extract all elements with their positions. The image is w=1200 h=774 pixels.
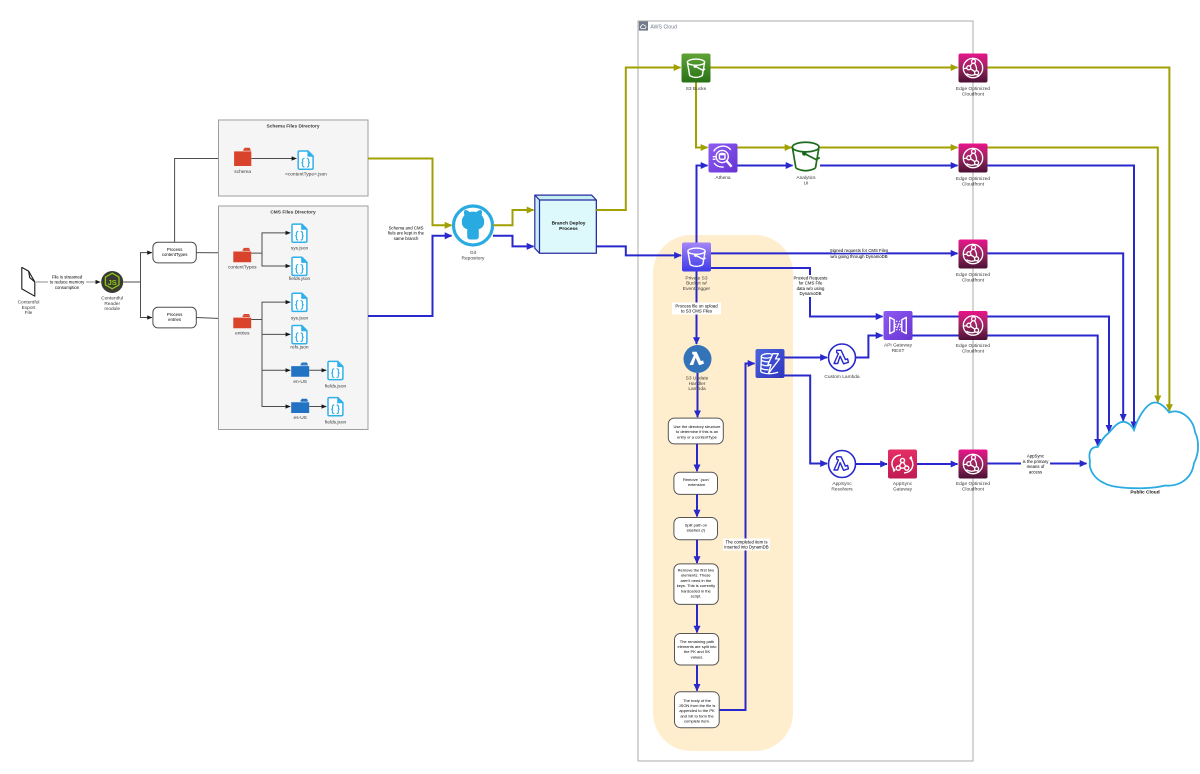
wire en-US to fields.json xyxy=(309,369,326,371)
wire blue Resolvers to AppSync Gateway xyxy=(856,463,887,465)
en-US folder xyxy=(291,363,309,377)
wire olive S3 to CloudFront1 xyxy=(711,67,958,69)
CloudFront 3 icon xyxy=(959,240,988,269)
svg-text:The body of theJSON from the f: The body of theJSON from the file isappe… xyxy=(679,698,716,724)
flow box 1 xyxy=(668,418,723,444)
API Gateway REST icon xyxy=(884,311,913,340)
sys.json 2 xyxy=(292,293,307,311)
svg-text:S3 UpdateHandlerLambda: S3 UpdateHandlerLambda xyxy=(686,376,709,393)
CloudFront 2 icon xyxy=(959,144,988,173)
svg-text:Processentries: Processentries xyxy=(167,312,183,322)
contentTypes folder xyxy=(233,248,251,262)
CloudFront 1 icon xyxy=(959,54,988,83)
edge label process file on upload xyxy=(672,303,721,315)
wire blue CloudFront3 to public cloud xyxy=(988,253,1124,420)
wire blue branch deploy to private S3 xyxy=(596,246,681,255)
wire blue cms dir to git xyxy=(368,236,452,316)
svg-text:The completed item isinserted: The completed item isinserted into Dynam… xyxy=(724,539,768,549)
Contentful Export File document xyxy=(22,267,35,296)
fields.json 2 xyxy=(328,361,343,379)
svg-text:en-US: en-US xyxy=(293,379,307,385)
wire flow 3-4 xyxy=(696,540,698,563)
svg-text:Athena: Athena xyxy=(715,175,731,181)
wire blue completed item to DynamoDB xyxy=(719,364,754,711)
edge label completed item xyxy=(723,539,770,551)
wire blue git to branch deploy xyxy=(493,236,534,247)
wire olive Athena to Analytics UI xyxy=(738,147,792,149)
S3 Bucket icon xyxy=(682,54,711,83)
svg-text:Private S3Bucket w/Event trig: Private S3Bucket w/Event trigger xyxy=(683,275,711,292)
edge label signed requests xyxy=(830,248,888,259)
wire flow 2-3 xyxy=(696,494,698,516)
refs.json xyxy=(292,326,307,344)
svg-text:Custom Lambda: Custom Lambda xyxy=(824,374,860,380)
CloudFront 4 icon xyxy=(959,311,988,340)
svg-text:<contentType>.json: <contentType>.json xyxy=(285,171,327,177)
Athena icon xyxy=(709,144,738,173)
Private S3 bucket icon xyxy=(682,243,711,272)
wire blue AppSync Gateway to CloudFront5 xyxy=(917,463,958,465)
S3 Update Handler Lambda xyxy=(684,345,712,373)
svg-text:Use the directory structureto: Use the directory structureto determine … xyxy=(674,424,722,439)
wires entries folder to children xyxy=(251,302,290,406)
fields.json 1 xyxy=(292,257,307,275)
wire blue DynamoDB to Custom Lambda xyxy=(785,357,828,359)
wire flow 1-2 xyxy=(696,444,698,471)
fields.json 3 xyxy=(328,398,343,416)
Branch Deploy Process cube xyxy=(535,195,597,253)
Process entries box xyxy=(153,307,196,328)
svg-text:contentTypes: contentTypes xyxy=(228,264,257,270)
schema folder xyxy=(234,148,251,166)
svg-text:Process file on uploadto S3 CM: Process file on uploadto S3 CMS Files xyxy=(675,303,718,313)
flow box 3 xyxy=(674,518,718,540)
wire blue private S3 down to update lambda xyxy=(696,272,698,345)
wire blue API Gateway to public cloud upper xyxy=(913,317,1110,432)
svg-text:Public Cloud: Public Cloud xyxy=(1130,490,1159,496)
AWS Cloud container xyxy=(638,21,973,761)
wire flow 5-6 xyxy=(696,665,698,691)
wire olive branch deploy to S3 bucket xyxy=(596,68,680,211)
Git Repository xyxy=(454,206,493,245)
svg-text:fields.json: fields.json xyxy=(325,420,347,426)
svg-text:CMS Files Directory: CMS Files Directory xyxy=(270,210,316,216)
wire blue Athena to Analytics UI xyxy=(738,165,793,167)
wire olive CloudFront1 to public cloud xyxy=(988,68,1170,412)
sys.json 1 xyxy=(292,224,307,242)
svg-text:entries: entries xyxy=(235,331,250,337)
flow box 4 xyxy=(674,564,718,605)
Contentful Reader module (node.js) xyxy=(101,271,123,293)
svg-text:refs.json: refs.json xyxy=(290,344,308,350)
flow box 5 xyxy=(675,634,719,666)
DynamoDB icon xyxy=(756,349,785,378)
wire blue CloudFront2 to public cloud xyxy=(988,166,1135,429)
wire es-US to fields.json xyxy=(309,406,326,408)
svg-text:fields.json: fields.json xyxy=(289,276,311,282)
wire olive git to branch deploy xyxy=(493,210,534,225)
wire blue update lambda down to flow box 1 xyxy=(697,373,699,417)
wire blue Custom Lambda to API Gateway xyxy=(856,336,883,358)
wire schema folder to contentType json xyxy=(251,158,296,160)
flow box 2 xyxy=(674,472,718,494)
orange Lambda process group xyxy=(653,235,793,751)
edge label proxied requests xyxy=(794,275,828,297)
svg-text:sys.json: sys.json xyxy=(291,245,309,251)
Public Cloud xyxy=(1089,403,1198,489)
wire olive S3 down to Athena xyxy=(696,83,708,148)
CloudFront 5 icon xyxy=(959,450,988,479)
wire flow 4-5 xyxy=(696,604,698,632)
wires contentTypes folder to jsons xyxy=(251,233,290,266)
wire blue signed requests private S3 to CloudFront3 xyxy=(711,252,958,254)
contentType json file xyxy=(298,151,313,169)
wire process entries to entries folder xyxy=(196,318,232,320)
AppSync Gateway icon xyxy=(888,450,917,479)
entries folder xyxy=(233,314,251,328)
svg-text:schema: schema xyxy=(234,169,251,175)
edge label appsync primary xyxy=(1021,453,1050,475)
flow box 6 xyxy=(675,692,720,728)
Analytics UI bucket xyxy=(792,142,819,170)
Custom Lambda xyxy=(829,344,856,371)
es-US folder xyxy=(291,399,309,413)
wire node to process boxes xyxy=(123,253,152,318)
svg-text:S3 Bucke: S3 Bucke xyxy=(686,86,707,92)
wire blue proxied requests private S3 to API Gateway xyxy=(711,268,883,317)
svg-text:AppSyncGateway: AppSyncGateway xyxy=(893,481,913,492)
svg-text:Schema Files Directory: Schema Files Directory xyxy=(266,124,319,130)
AppSync Resolvers lambda xyxy=(829,451,856,478)
wire doc to node xyxy=(36,281,100,283)
Process contentTypes box xyxy=(153,242,196,263)
svg-text:es-US: es-US xyxy=(294,415,307,421)
wire olive schema dir to git xyxy=(368,159,452,226)
wire blue CloudFront5 to public cloud xyxy=(988,463,1087,465)
svg-text:ContentfulReadermodule: ContentfulReadermodule xyxy=(101,296,123,313)
svg-text:Signed requests for CMS Filesw: Signed requests for CMS Filesw/o going t… xyxy=(830,248,888,259)
wire process contentTypes up to schema folder xyxy=(175,159,233,243)
wire blue Analytics UI to CloudFront2 xyxy=(820,165,958,167)
svg-text:AppSyncResolvers: AppSyncResolvers xyxy=(831,481,853,492)
wire process contentTypes to contentTypes folder xyxy=(196,252,232,254)
wire olive Analytics UI to CloudFront2 xyxy=(820,147,958,149)
svg-text:fields.json: fields.json xyxy=(325,383,347,389)
svg-text:AWS Cloud: AWS Cloud xyxy=(650,24,677,30)
wire blue API Gateway to public cloud lower xyxy=(913,336,1098,446)
svg-text:JS: JS xyxy=(108,278,117,287)
wire blue private S3 up to Athena xyxy=(697,166,708,243)
CMS Files Directory container xyxy=(219,206,369,430)
Schema Files Directory container xyxy=(219,120,369,196)
svg-text:Split path onslashes (/): Split path onslashes (/) xyxy=(685,522,707,532)
svg-text:sys.json: sys.json xyxy=(291,315,309,321)
wire blue DynamoDB to AppSync Resolvers xyxy=(785,376,828,464)
wire olive CloudFront2 to public cloud xyxy=(988,148,1158,403)
